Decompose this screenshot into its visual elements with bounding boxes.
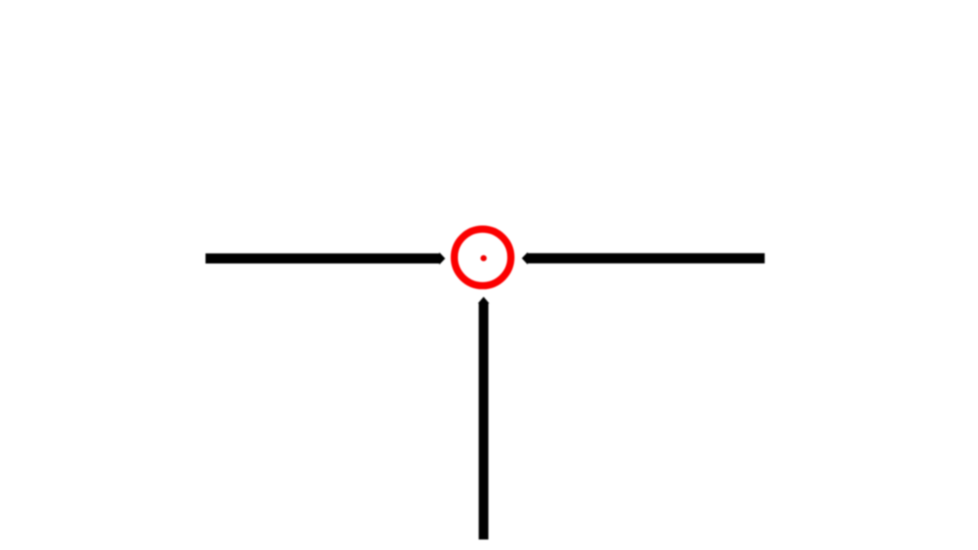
node circle (red ring) <box>454 229 511 286</box>
node dot (red center point) <box>481 255 487 261</box>
arrow up (south arm, arrowhead pointing up toward node) <box>478 297 489 540</box>
arrow left (west arm, arrowhead pointing right toward node) <box>206 252 446 265</box>
arrow right (east arm, arrowhead pointing left toward node) <box>522 252 765 265</box>
